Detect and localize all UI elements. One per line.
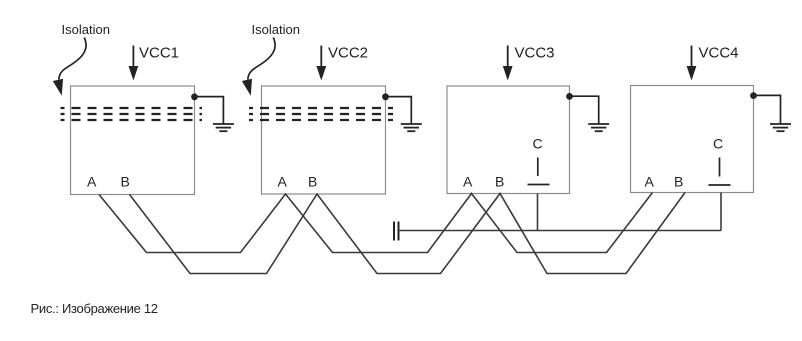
wire U3 to ground bbox=[570, 96, 599, 124]
node dot U2 ground bbox=[382, 93, 389, 100]
isolation barrier dashes U1 bbox=[61, 108, 203, 120]
svg-text:B: B bbox=[674, 174, 683, 190]
node dot U1 ground bbox=[191, 93, 198, 100]
svg-text:VCC3: VCC3 bbox=[515, 45, 555, 62]
module U2 box bbox=[262, 86, 386, 194]
ground GND1 bbox=[213, 124, 234, 131]
ground GND4 bbox=[770, 124, 791, 131]
isolation pointer arrow U1 bbox=[53, 38, 86, 96]
svg-text:B: B bbox=[495, 174, 504, 190]
wire bus A net bbox=[99, 193, 653, 253]
svg-text:C: C bbox=[713, 136, 723, 152]
svg-text:A: A bbox=[87, 174, 97, 190]
svg-text:B: B bbox=[121, 174, 130, 190]
svg-text:Isolation: Isolation bbox=[252, 22, 300, 37]
capacitor C3 symbol bbox=[528, 158, 550, 185]
capacitor C4 symbol bbox=[709, 158, 731, 186]
svg-text:A: A bbox=[645, 174, 655, 190]
svg-text:Рис.: Изображение 12: Рис.: Изображение 12 bbox=[31, 301, 158, 316]
module U1 box bbox=[71, 86, 195, 195]
wire U1 to ground bbox=[195, 97, 224, 124]
svg-text:VCC1: VCC1 bbox=[139, 45, 179, 62]
isolation barrier dashes U2 bbox=[249, 108, 393, 120]
svg-text:C: C bbox=[533, 136, 543, 152]
VCC3 supply arrow bbox=[503, 46, 513, 81]
capacitor C5 plates bbox=[394, 222, 399, 241]
svg-text:B: B bbox=[308, 174, 317, 190]
svg-text:A: A bbox=[463, 174, 473, 190]
wire capacitor net bbox=[399, 230, 722, 232]
VCC4 supply arrow bbox=[687, 46, 697, 81]
ground GND3 bbox=[588, 124, 609, 131]
wire bus B net bbox=[130, 193, 686, 274]
svg-text:A: A bbox=[278, 174, 288, 190]
wire C4 drop bbox=[720, 193, 722, 231]
wire U4 to ground bbox=[754, 95, 781, 124]
wire U2 to ground bbox=[386, 97, 412, 124]
svg-text:VCC2: VCC2 bbox=[328, 45, 368, 62]
node dot U3 ground bbox=[566, 93, 573, 100]
ground GND2 bbox=[401, 124, 422, 131]
VCC2 supply arrow bbox=[316, 46, 326, 81]
node dot U4 ground bbox=[750, 92, 757, 99]
svg-text:Isolation: Isolation bbox=[62, 22, 110, 37]
module U4 box bbox=[631, 86, 754, 193]
isolation pointer arrow U2 bbox=[242, 38, 275, 96]
svg-text:VCC4: VCC4 bbox=[699, 45, 739, 62]
module U3 box bbox=[447, 86, 570, 194]
wire C3 drop bbox=[537, 194, 539, 231]
VCC1 supply arrow bbox=[129, 46, 139, 81]
